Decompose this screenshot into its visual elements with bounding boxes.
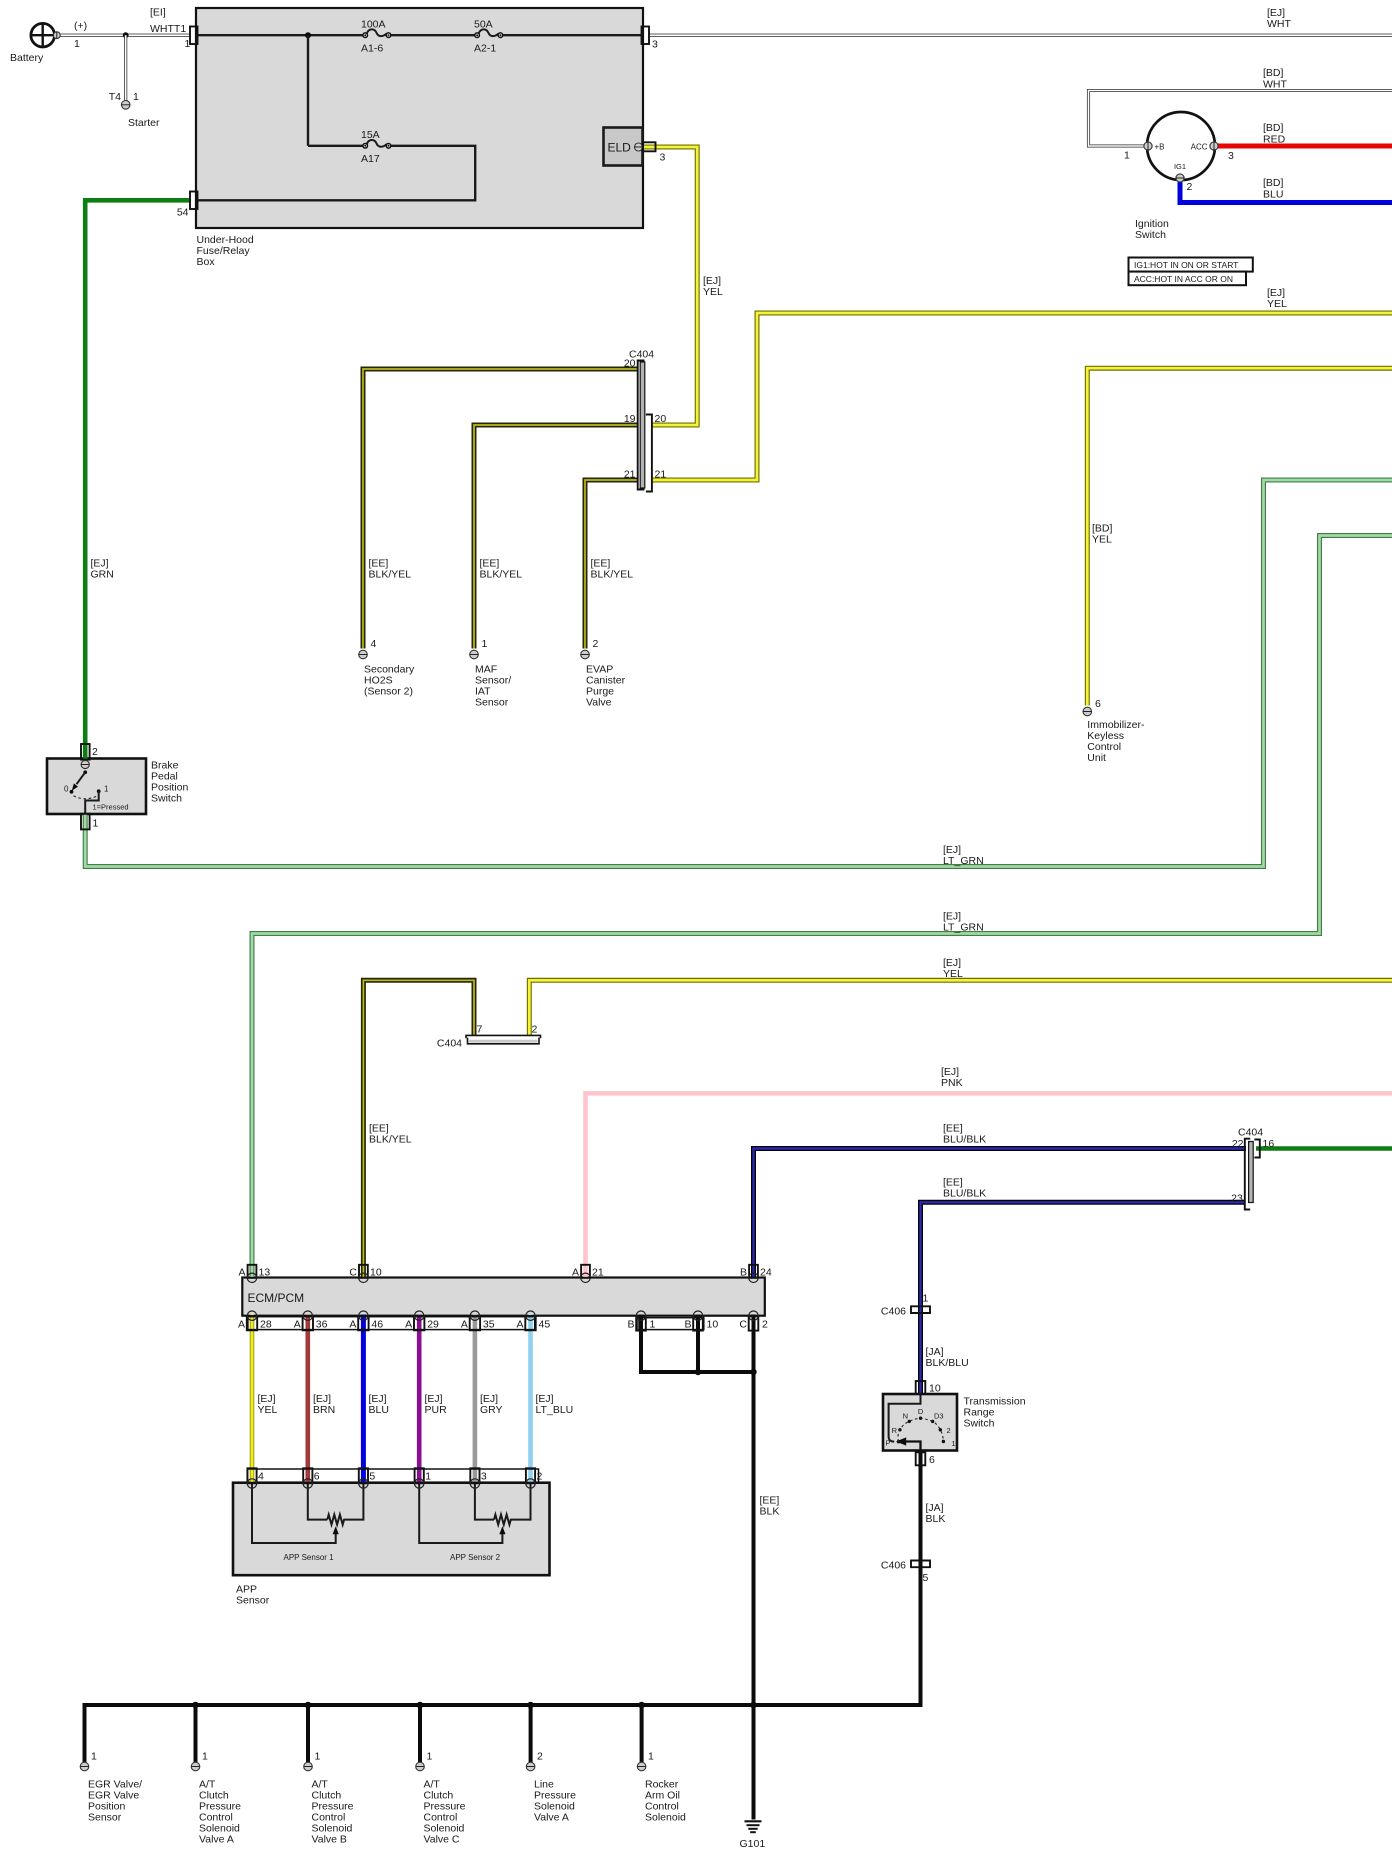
ECM top pin A21 [581, 1265, 590, 1283]
starter terminal T4-1 [121, 101, 130, 110]
svg-text:ELD: ELD [608, 141, 632, 155]
svg-text:21: 21 [655, 469, 667, 481]
svg-text:15A: 15A [361, 129, 380, 141]
immobilizer terminal 6 [1083, 707, 1092, 716]
svg-text:1: 1 [482, 638, 488, 650]
svg-text:1: 1 [650, 1319, 656, 1331]
svg-text:1: 1 [202, 1751, 208, 1763]
svg-text:WHT: WHT [1263, 79, 1287, 91]
svg-text:A: A [238, 1267, 245, 1279]
wire [EE] BLU/BLK ECM B24 to C404-22 [754, 1149, 1247, 1279]
wire [EJ] LT_GRN brake switch to right edge [85, 480, 1392, 867]
brake switch pin 1 [81, 814, 90, 830]
svg-text:PNK: PNK [941, 1077, 963, 1089]
svg-text:LT_GRN: LT_GRN [943, 855, 984, 867]
line pressure terminal 2 [526, 1762, 535, 1771]
svg-text:2: 2 [762, 1319, 768, 1331]
connector C404 7/2 top half [466, 1035, 541, 1038]
svg-text:WHT: WHT [1267, 18, 1291, 30]
svg-text:D3: D3 [934, 1411, 944, 1420]
wire [EE] BLK ECM C2 to G101 [752, 1315, 756, 1820]
svg-text:1: 1 [952, 1439, 956, 1448]
svg-text:A17: A17 [361, 153, 380, 165]
svg-text:(Sensor 2): (Sensor 2) [364, 686, 413, 698]
wire [EJ] BRN ECM A36 to APP 6 [305, 1315, 310, 1483]
svg-text:LT_BLU: LT_BLU [536, 1404, 574, 1416]
ECM bottom pin C2 [749, 1311, 759, 1331]
ground bus drop A/T A [194, 1705, 198, 1762]
svg-text:BLU: BLU [1263, 189, 1283, 201]
APP pin 4 [247, 1468, 256, 1488]
svg-text:IG1: IG1 [1174, 162, 1186, 171]
svg-text:4: 4 [371, 638, 377, 650]
ELD unit [604, 128, 643, 166]
wire [JA] BLK C406-5 to ground bus [85, 1564, 921, 1763]
transmission range switch internals [885, 1394, 955, 1452]
svg-text:16: 16 [1263, 1138, 1275, 1150]
ECM bottom pin A28 [247, 1311, 257, 1330]
svg-text:Starter: Starter [128, 117, 160, 129]
ECM bottom pin A45 [525, 1311, 535, 1330]
svg-text:3: 3 [1228, 150, 1234, 162]
wire [EJ] PUR ECM A29 to APP 1 [417, 1315, 422, 1483]
wire to starter [124, 35, 127, 100]
transmission range switch box [883, 1394, 957, 1451]
wire [EJ] GRY ECM A35 to APP 3 [473, 1315, 478, 1483]
svg-text:YEL: YEL [258, 1404, 278, 1416]
svg-text:2: 2 [947, 1426, 951, 1435]
svg-text:28: 28 [260, 1319, 272, 1331]
svg-text:54: 54 [177, 207, 189, 219]
connector C404 19/20/21 left half [638, 361, 645, 490]
fuse 100A A1-6 [361, 19, 391, 55]
svg-text:BRN: BRN [313, 1404, 335, 1416]
A/T clutch C terminal 1 [416, 1762, 425, 1771]
APP pin 5 [359, 1468, 368, 1488]
svg-text:(+): (+) [74, 20, 87, 32]
svg-text:WHTT1: WHTT1 [150, 23, 186, 35]
svg-text:46: 46 [371, 1319, 383, 1331]
svg-text:5: 5 [923, 1572, 929, 1584]
wire [EJ] LT_GRN right edge to ECM A13 [252, 536, 1392, 1279]
svg-text:24: 24 [760, 1267, 772, 1279]
svg-text:2: 2 [537, 1751, 543, 1763]
fuse 50A A2-1 [474, 19, 503, 55]
ECM bottom pin A46 [358, 1311, 368, 1330]
ground bus drop A/T C [418, 1705, 422, 1762]
connector C404 22/16/23 left half [1245, 1139, 1250, 1210]
svg-text:29: 29 [427, 1319, 439, 1331]
svg-text:A: A [516, 1319, 523, 1331]
wire [BD] BLU ignition IG1 [1180, 182, 1392, 203]
wire [EJ] BLU ECM A46 to APP 5 [361, 1315, 366, 1483]
wire [EJ] YEL ECM A28 to APP 4 [250, 1315, 255, 1483]
svg-text:A: A [461, 1319, 468, 1331]
svg-text:G101: G101 [740, 1838, 766, 1850]
connector C404 22/16/23 right half [1254, 1140, 1259, 1158]
ECM top pin A13 [247, 1265, 256, 1283]
wire [EJ] PNK ECM A21 to right edge [586, 1093, 1392, 1278]
svg-text:BLK/YEL: BLK/YEL [591, 569, 634, 581]
APP sensor box [233, 1483, 550, 1576]
svg-text:Valve A: Valve A [199, 1834, 234, 1846]
svg-text:Sensor: Sensor [88, 1812, 122, 1824]
svg-text:BLU: BLU [369, 1404, 389, 1416]
ground bus drop A/T B [306, 1705, 310, 1762]
ECM top pin C10 [359, 1265, 368, 1283]
svg-text:R: R [892, 1426, 898, 1435]
connector C404 7/2 bottom half [468, 1038, 540, 1044]
ECM bottom pin B10 [693, 1311, 703, 1331]
svg-text:T4: T4 [109, 91, 121, 103]
svg-text:A: A [349, 1319, 356, 1331]
svg-text:GRN: GRN [91, 569, 114, 581]
svg-text:[EI]: [EI] [150, 7, 166, 19]
svg-text:6: 6 [929, 1454, 935, 1466]
svg-text:Sensor: Sensor [475, 697, 509, 709]
svg-text:B: B [740, 1267, 747, 1279]
junction battery wire [123, 32, 129, 38]
wire [BD] WHT ignition +B [1089, 91, 1392, 147]
svg-text:4: 4 [258, 1471, 264, 1483]
APP pin 1 [415, 1468, 424, 1488]
svg-text:21: 21 [624, 469, 636, 481]
svg-text:Switch: Switch [151, 793, 182, 805]
svg-text:7: 7 [477, 1024, 483, 1036]
svg-text:[BD]: [BD] [1263, 177, 1284, 189]
svg-text:22: 22 [1232, 1138, 1244, 1150]
junction dots B wires [695, 1369, 701, 1375]
svg-text:100A: 100A [361, 19, 386, 31]
EVAP valve terminal 2 [581, 650, 590, 659]
ignition note box IG1 [1129, 258, 1253, 272]
svg-text:Valve C: Valve C [424, 1834, 460, 1846]
svg-text:2: 2 [92, 746, 98, 758]
ignition switch [1144, 112, 1218, 182]
svg-text:10: 10 [707, 1319, 719, 1331]
svg-text:BLK: BLK [760, 1506, 780, 1518]
ECM bottom pin A36 [303, 1311, 313, 1330]
secondary HO2S terminal 4 [359, 650, 368, 659]
svg-text:35: 35 [483, 1319, 495, 1331]
svg-text:1: 1 [427, 1751, 433, 1763]
svg-text:BLK: BLK [926, 1513, 946, 1525]
brake switch internals [64, 770, 129, 813]
wire [EE] BLK/YEL ECM C10 to C404-7 [363, 980, 474, 1278]
svg-text:A: A [294, 1319, 301, 1331]
svg-text:C: C [739, 1319, 747, 1331]
wire [EJ] GRN fuse box 54 to brake switch [85, 200, 190, 760]
svg-text:YEL: YEL [1267, 298, 1287, 310]
ECM bottom pin A29 [414, 1311, 424, 1330]
svg-text:50A: 50A [474, 19, 493, 31]
fuse box pin 54 [190, 192, 198, 210]
ignition note box ACC [1129, 272, 1247, 286]
svg-text:3: 3 [652, 39, 658, 51]
svg-text:Box: Box [197, 256, 216, 268]
svg-text:D: D [918, 1407, 924, 1416]
svg-text:[BD]: [BD] [1263, 67, 1284, 79]
svg-text:APP Sensor 2: APP Sensor 2 [450, 1553, 501, 1562]
ECM/PCM box [242, 1278, 765, 1316]
wire junction to 15A fuse [308, 35, 363, 146]
svg-text:LT_GRN: LT_GRN [943, 922, 984, 934]
svg-text:ACC:HOT IN ACC OR ON: ACC:HOT IN ACC OR ON [1134, 274, 1233, 284]
svg-text:C404: C404 [1238, 1127, 1263, 1139]
svg-text:B: B [627, 1319, 634, 1331]
svg-text:C404: C404 [437, 1038, 462, 1050]
svg-text:20: 20 [655, 413, 667, 425]
svg-text:Valve: Valve [586, 697, 612, 709]
svg-text:1: 1 [104, 785, 109, 794]
under-hood fuse/relay box [196, 8, 643, 228]
svg-text:A2-1: A2-1 [474, 43, 496, 55]
svg-text:Switch: Switch [1135, 229, 1166, 241]
svg-text:5: 5 [369, 1471, 375, 1483]
svg-text:YEL: YEL [1092, 534, 1112, 546]
svg-text:20: 20 [624, 358, 636, 370]
fuse box pin 3 [642, 27, 650, 45]
A/T clutch A terminal 1 [191, 1762, 200, 1771]
svg-text:1: 1 [315, 1751, 321, 1763]
svg-text:N: N [903, 1411, 908, 1420]
svg-text:1: 1 [648, 1751, 654, 1763]
svg-text:BLK/YEL: BLK/YEL [369, 1134, 412, 1146]
svg-text:B: B [684, 1319, 691, 1331]
ground bus drop line pressure [529, 1705, 533, 1762]
svg-text:Battery: Battery [10, 52, 44, 64]
svg-text:19: 19 [624, 413, 636, 425]
svg-text:23: 23 [1231, 1193, 1243, 1205]
wire [BD] YEL to immobilizer [1087, 368, 1392, 705]
MAF sensor terminal 1 [470, 650, 479, 659]
svg-text:13: 13 [259, 1267, 271, 1279]
svg-text:ACC: ACC [1191, 143, 1208, 152]
svg-text:APP Sensor 1: APP Sensor 1 [284, 1553, 335, 1562]
svg-text:3: 3 [660, 152, 666, 164]
wire [EI] WHT battery to fuse box [57, 34, 190, 37]
svg-text:Unit: Unit [1087, 752, 1106, 764]
wire [EJ] LT_BLU ECM A45 to APP 2 [528, 1315, 533, 1483]
svg-text:1: 1 [93, 818, 99, 830]
wire [JA] BLK TRS pin 6 to C406-5 [919, 1451, 923, 1564]
svg-text:BLK/YEL: BLK/YEL [369, 569, 412, 581]
APP sensor 1 potentiometer [252, 1483, 363, 1562]
svg-text:BLU/BLK: BLU/BLK [943, 1188, 986, 1200]
brake pedal position switch box [47, 759, 146, 815]
wire [EE] BLU/BLK C404-23 to C406-1 [921, 1202, 1245, 1309]
svg-text:YEL: YEL [703, 286, 723, 298]
svg-text:1: 1 [74, 38, 80, 50]
rocker arm terminal 1 [637, 1762, 646, 1771]
svg-text:6: 6 [314, 1471, 320, 1483]
EGR valve terminal 1 [80, 1762, 89, 1771]
ECM bottom pin B1 [636, 1311, 646, 1331]
wire [EJ] WHT fuse box to right edge [649, 34, 1392, 37]
svg-text:A: A [238, 1319, 245, 1331]
wire GRN C404-16 to right edge [1256, 1146, 1392, 1151]
svg-text:1: 1 [425, 1471, 431, 1483]
fuse box pin 1 [190, 27, 198, 45]
wire [EE] BLK/YEL C404-20 to secondary HO2S [363, 369, 638, 649]
ECM top pin B24 [749, 1265, 758, 1283]
svg-text:36: 36 [316, 1319, 328, 1331]
ECM bottom connector strip A [248, 1317, 535, 1330]
ELD pin 3 [643, 142, 656, 151]
brake switch pin 2 [81, 744, 90, 760]
svg-text:Solenoid: Solenoid [645, 1812, 686, 1824]
ELD terminal [635, 143, 643, 151]
svg-text:2: 2 [532, 1024, 538, 1036]
wire [BD] RED ignition ACC [1217, 144, 1392, 149]
battery [31, 23, 60, 47]
svg-text:45: 45 [539, 1319, 551, 1331]
wire [JA] BLK/BLU C406 to TRS pin 10 [918, 1310, 923, 1395]
svg-text:P: P [885, 1438, 890, 1447]
svg-text:BLK/YEL: BLK/YEL [480, 569, 523, 581]
svg-text:A: A [572, 1267, 579, 1279]
svg-text:+B: +B [1155, 143, 1165, 152]
svg-text:1: 1 [133, 91, 139, 103]
fuse 15A A17 [361, 129, 391, 165]
ground G101 [745, 1821, 762, 1832]
svg-text:6: 6 [1095, 698, 1101, 710]
junction in fuse box [305, 32, 311, 38]
ground bus junction dots [192, 1702, 199, 1709]
connector C406 pin 5 [911, 1561, 930, 1565]
svg-text:21: 21 [592, 1267, 604, 1279]
svg-text:1: 1 [923, 1293, 929, 1305]
svg-text:2: 2 [1187, 181, 1193, 193]
svg-text:[BD]: [BD] [1263, 122, 1284, 134]
svg-text:2: 2 [593, 638, 599, 650]
svg-text:IG1:HOT IN ON OR START: IG1:HOT IN ON OR START [1134, 260, 1238, 270]
APP pin 6 [303, 1468, 312, 1488]
svg-text:1: 1 [185, 38, 191, 50]
svg-text:3: 3 [481, 1471, 487, 1483]
svg-text:A: A [405, 1319, 412, 1331]
svg-text:Valve A: Valve A [534, 1812, 569, 1824]
svg-text:C: C [349, 1267, 357, 1279]
svg-text:A1-6: A1-6 [361, 43, 383, 55]
svg-text:1: 1 [91, 1751, 97, 1763]
svg-text:C406: C406 [881, 1560, 906, 1572]
svg-text:RED: RED [1263, 134, 1286, 146]
TRS pin 6 [916, 1452, 926, 1465]
ground bus drop rocker arm [640, 1705, 644, 1762]
svg-text:10: 10 [929, 1383, 941, 1395]
svg-text:PUR: PUR [425, 1404, 448, 1416]
svg-text:1=Pressed: 1=Pressed [93, 803, 129, 812]
wire [EJ] YEL C404 pin 21 to right edge [652, 313, 1392, 480]
svg-text:10: 10 [370, 1267, 382, 1279]
wire 15A fuse to pin 54 [196, 146, 475, 201]
svg-text:Valve B: Valve B [312, 1834, 347, 1846]
svg-text:C406: C406 [881, 1306, 906, 1318]
APP connector strip [248, 1469, 539, 1483]
svg-text:0: 0 [64, 785, 69, 794]
wire [EE] BLK/YEL C404-19 to MAF sensor [474, 425, 638, 649]
APP pin 2 [526, 1468, 535, 1488]
wire [EE] BLK/YEL C404-21 to EVAP valve [585, 480, 638, 649]
svg-text:YEL: YEL [943, 968, 963, 980]
svg-text:BLU/BLK: BLU/BLK [943, 1134, 986, 1146]
APP pin 3 [470, 1468, 479, 1488]
svg-text:BLK/BLU: BLK/BLU [926, 1357, 969, 1369]
connector C406 pin 1 [911, 1306, 930, 1310]
brake switch terminal [81, 760, 89, 768]
ECM bottom connector strip B [638, 1318, 704, 1330]
svg-text:GRY: GRY [480, 1404, 503, 1416]
fuse box internal bus wire [196, 34, 363, 36]
wire ECM B10 [696, 1315, 700, 1373]
svg-text:Sensor: Sensor [236, 1595, 270, 1607]
svg-text:ECM/PCM: ECM/PCM [248, 1291, 305, 1305]
svg-text:2: 2 [537, 1471, 543, 1483]
wire ECM B1 [641, 1315, 754, 1373]
A/T clutch B terminal 1 [304, 1762, 313, 1771]
ECM bottom pin A35 [470, 1311, 480, 1330]
svg-text:1: 1 [1124, 150, 1130, 162]
connector C404 19/20/21 right half [646, 415, 652, 492]
APP sensor 2 potentiometer [419, 1483, 530, 1562]
TRS pin 10 [916, 1381, 926, 1394]
svg-text:Switch: Switch [964, 1418, 995, 1430]
wire [EJ] YEL C404-2 to right edge [529, 980, 1392, 1035]
wire [EJ] YEL ELD to C404 pin 20 [644, 147, 697, 425]
